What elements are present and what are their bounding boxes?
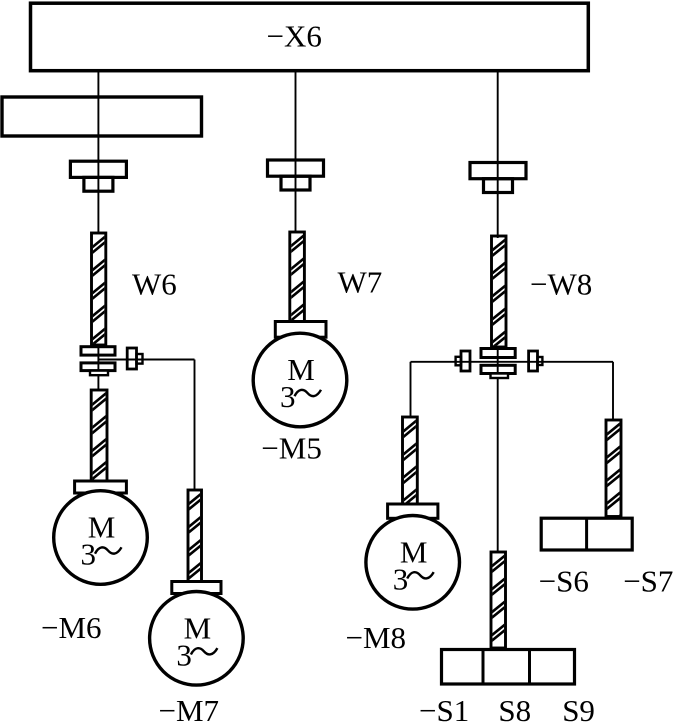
svg-text:3: 3 bbox=[280, 379, 296, 414]
svg-text:−S7: −S7 bbox=[623, 564, 673, 599]
svg-text:S9: S9 bbox=[562, 693, 595, 722]
svg-text:−S6: −S6 bbox=[539, 564, 589, 599]
svg-text:−M8: −M8 bbox=[346, 620, 407, 655]
svg-text:−M7: −M7 bbox=[159, 693, 220, 722]
svg-text:−M6: −M6 bbox=[41, 610, 102, 645]
svg-text:−M5: −M5 bbox=[261, 431, 322, 466]
svg-text:3: 3 bbox=[176, 637, 192, 672]
svg-text:W7: W7 bbox=[338, 265, 383, 300]
svg-text:−X6: −X6 bbox=[267, 19, 322, 54]
svg-text:W6: W6 bbox=[132, 266, 177, 301]
svg-text:−S1: −S1 bbox=[419, 693, 469, 722]
svg-text:3: 3 bbox=[393, 561, 409, 596]
svg-text:3: 3 bbox=[81, 537, 97, 572]
svg-text:−W8: −W8 bbox=[530, 267, 592, 302]
svg-text:S8: S8 bbox=[498, 693, 531, 722]
